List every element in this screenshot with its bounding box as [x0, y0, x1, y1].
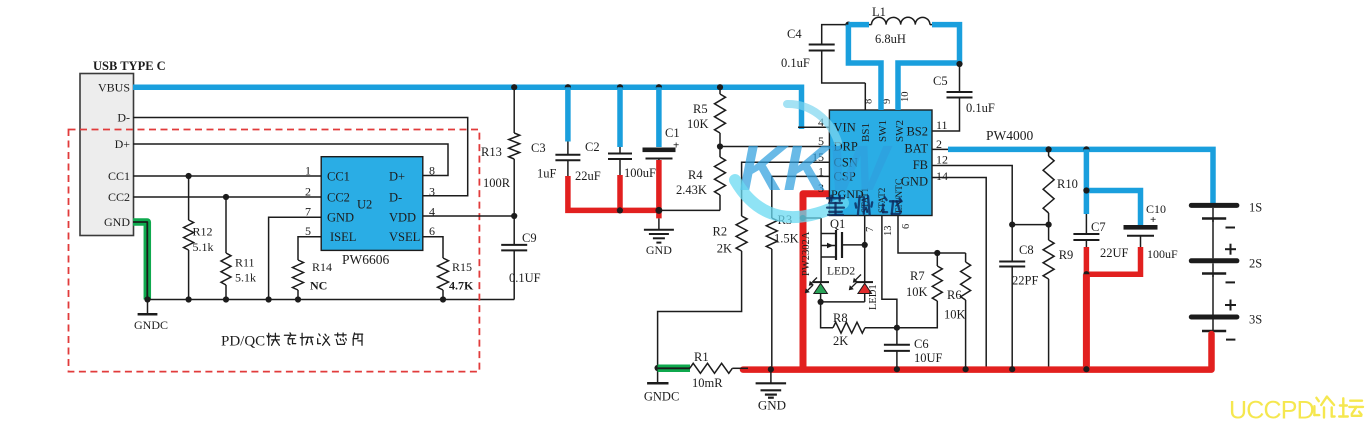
battery sign -3 [1226, 339, 1235, 341]
resistor R10 [1043, 149, 1078, 224]
wire VBUS bus (thick blue) [133, 87, 802, 129]
junction red C1 [655, 207, 662, 214]
svg-text:R7: R7 [910, 269, 925, 283]
svg-text:GNDC: GNDC [134, 318, 168, 332]
svg-text:D+: D+ [115, 137, 131, 151]
svg-text:BAT: BAT [904, 142, 928, 156]
svg-text:C6: C6 [914, 337, 929, 351]
svg-text:R14: R14 [312, 260, 332, 274]
wire pin13 net [882, 216, 897, 328]
svg-text:PW4000: PW4000 [986, 128, 1034, 143]
svg-text:D-: D- [117, 111, 130, 125]
wire GNDC-R1 (green) [658, 365, 690, 373]
wire FB net [932, 166, 1012, 262]
svg-text:GND: GND [104, 215, 130, 229]
resistor R9 [1043, 225, 1073, 370]
junction bus R3/GND [768, 366, 774, 372]
capacitor C9 [501, 216, 540, 300]
junction L1 left [845, 22, 851, 28]
svg-text:6.8uH: 6.8uH [875, 32, 906, 46]
junction CC2/R11 [223, 194, 229, 200]
svg-text:3S: 3S [1249, 313, 1262, 327]
op-chip U2 PW6606 body [321, 157, 423, 251]
svg-text:C8: C8 [1019, 243, 1034, 257]
wire pin6 EN net [898, 216, 966, 254]
diode LED1 (red) [849, 275, 879, 311]
junction BAT C7 [1083, 146, 1089, 152]
junction VBUS R13 [511, 84, 517, 90]
svg-text:1S: 1S [1249, 201, 1262, 215]
resistor R3 [766, 213, 798, 369]
svg-text:D+: D+ [389, 170, 405, 184]
U1 pin numbers right [936, 118, 948, 183]
wire LED cathodes join [821, 301, 865, 303]
junction CC1/R12 [186, 173, 192, 179]
junction bus R6 [963, 366, 969, 372]
junction VDD R13 C9 [511, 213, 517, 219]
svg-text:22uF: 22uF [575, 169, 601, 183]
capacitor C8 [999, 243, 1038, 370]
junction rail R15 [440, 296, 446, 302]
wire ground rail [148, 299, 515, 301]
junction red C2 [617, 207, 623, 213]
capacitor C5 [932, 64, 995, 131]
wire C1-R4 gnd link [659, 209, 720, 211]
svg-text:UCCPD: UCCPD [1229, 397, 1314, 423]
chip U1 PW4000 body [829, 110, 932, 216]
svg-text:10UF: 10UF [914, 351, 943, 365]
junction R5 R4 DRP [717, 143, 723, 149]
junction BAT R10 [1046, 146, 1052, 152]
label USB TYPE C [93, 59, 166, 73]
svg-text:R13: R13 [481, 145, 502, 159]
svg-text:GND: GND [758, 398, 786, 413]
svg-text:2: 2 [305, 185, 311, 199]
svg-text:2K: 2K [717, 242, 732, 256]
svg-text:KKW: KKW [739, 132, 892, 204]
wire D+ net [133, 144, 448, 176]
svg-text:GNDC: GNDC [644, 390, 679, 404]
svg-text:6: 6 [429, 224, 435, 238]
svg-text:10mR: 10mR [692, 376, 723, 390]
svg-text:C1: C1 [665, 126, 680, 140]
resistor R11 [221, 197, 256, 300]
wire FB to divider [1012, 224, 1048, 226]
svg-text:100uF: 100uF [1147, 247, 1178, 261]
svg-text:2K: 2K [833, 334, 848, 348]
wire U2 GND pin7 [269, 217, 322, 299]
junction FB divider [1009, 222, 1015, 228]
svg-text:8: 8 [429, 164, 435, 178]
watermark KKW [739, 132, 892, 204]
capacitor C7 [1073, 214, 1128, 260]
wire red to bus (thick red) [1083, 274, 1090, 370]
wire U2 VDD pin4 [423, 215, 514, 217]
svg-text:PW6606: PW6606 [342, 252, 390, 267]
wire SW1 (thick blue) [848, 25, 881, 110]
svg-text:13: 13 [883, 226, 894, 237]
svg-text:22UF: 22UF [1100, 246, 1129, 260]
svg-text:PW2302A: PW2302A [801, 231, 812, 276]
ground GNDC (bottom) [644, 368, 679, 403]
battery sign +1 [1225, 244, 1236, 255]
U1 top pin texts [860, 120, 906, 142]
svg-text:7: 7 [865, 227, 876, 232]
wire PGND (thick red) [803, 194, 829, 370]
svg-text:1.5K: 1.5K [774, 232, 799, 246]
svg-text:10K: 10K [906, 285, 928, 299]
resistor R4 [676, 147, 726, 211]
svg-text:10K: 10K [687, 117, 709, 131]
svg-text:R10: R10 [1057, 177, 1078, 191]
ground GNDC (left) [134, 300, 168, 333]
svg-text:2S: 2S [1249, 257, 1262, 271]
label PD/QC protocol chip (CJK) [221, 333, 363, 350]
svg-text:R8: R8 [833, 311, 848, 325]
junction R10 R9 [1046, 222, 1052, 228]
U1 bottom pin texts [860, 179, 905, 213]
resistor R8 [821, 302, 897, 348]
pin D+ label [115, 137, 131, 151]
svg-text:C7: C7 [1091, 220, 1106, 234]
junction red link [1083, 271, 1089, 277]
junction rail R11 [223, 296, 229, 302]
svg-text:1uF: 1uF [537, 167, 557, 181]
pin CC1 label [108, 169, 130, 183]
label UCCPD forum (CJK) [1229, 397, 1363, 423]
junction bus C8 [1009, 366, 1015, 372]
svg-text:CC1: CC1 [108, 169, 130, 183]
junction GNDC node [655, 365, 661, 371]
svg-text:6: 6 [901, 224, 912, 229]
svg-text:L1: L1 [872, 5, 886, 19]
pin D- label [117, 111, 130, 125]
transistor Q1 PW2302A [801, 217, 865, 282]
junction rail R12 [186, 296, 192, 302]
svg-text:2.43K: 2.43K [676, 183, 707, 197]
battery sign +2 [1225, 300, 1236, 311]
wire U1 GND pin14 [932, 178, 986, 370]
battery sign -2 [1226, 281, 1236, 283]
junction VBUS C2 [617, 84, 623, 90]
svg-text:R4: R4 [688, 168, 703, 182]
wire CSP net [772, 176, 830, 218]
wire battery bottom [1212, 331, 1214, 344]
svg-text:10: 10 [900, 92, 911, 103]
junction VBUS C3 [565, 84, 571, 90]
junction rail pin7 [266, 296, 272, 302]
wire BAT stub [932, 148, 952, 150]
svg-text:0.1UF: 0.1UF [509, 271, 541, 285]
U2 pin texts left [327, 170, 356, 245]
U2 pin numbers left [305, 164, 311, 239]
svg-text:7: 7 [305, 205, 311, 219]
junction bus C6 [894, 366, 900, 372]
USB Type-C connector shell [80, 74, 134, 236]
wire STAT pin7 net [864, 216, 866, 283]
svg-text:BS2: BS2 [906, 125, 928, 139]
svg-text:NC: NC [310, 279, 327, 293]
inductor L1 [848, 5, 937, 46]
wire CC2 net [133, 196, 321, 198]
svg-text:R6: R6 [947, 288, 962, 302]
svg-text:LED2: LED2 [827, 266, 855, 278]
svg-text:10K: 10K [944, 308, 966, 322]
pin CC2 label [108, 190, 130, 204]
wire GND bus (thick red) [743, 334, 1212, 370]
label PW4000 [986, 128, 1034, 143]
svg-text:12: 12 [936, 153, 948, 167]
svg-text:U2: U2 [357, 198, 372, 212]
junction blue branch [1083, 187, 1089, 193]
svg-text:5.1k: 5.1k [193, 240, 214, 254]
svg-text:D-: D- [389, 191, 402, 205]
wire CC1 net [133, 175, 321, 177]
svg-text:R9: R9 [1059, 248, 1074, 262]
svg-text:3: 3 [429, 185, 435, 199]
svg-text:USB TYPE C: USB TYPE C [93, 59, 166, 73]
resistor R15 [438, 258, 475, 300]
svg-text:C4: C4 [787, 27, 802, 41]
svg-text:R11: R11 [235, 256, 255, 270]
svg-text:GND: GND [327, 211, 354, 225]
U2 pin numbers right [429, 164, 435, 239]
svg-text:R1: R1 [694, 350, 709, 364]
wire BS1 stub [864, 83, 866, 110]
resistor R1 [690, 350, 748, 390]
junction LEDs [818, 299, 824, 305]
svg-text:100uF: 100uF [624, 166, 656, 180]
resistor R2 [658, 216, 748, 368]
capacitor C10 (electrolytic) [1124, 202, 1179, 261]
svg-text:VDD: VDD [389, 211, 416, 225]
svg-text:LED1: LED1 [868, 284, 879, 310]
capacitor C2 [575, 87, 632, 183]
U1 pin texts left [831, 121, 864, 202]
svg-text:CC2: CC2 [108, 190, 130, 204]
svg-text:SW2: SW2 [894, 120, 906, 142]
U1 bottom pin numbers [865, 224, 912, 236]
wire USB GND (green) [133, 222, 147, 300]
battery cell 3S [1189, 275, 1262, 331]
wire D- net [133, 118, 468, 196]
svg-text:100R: 100R [483, 176, 511, 190]
junction VBUS C1 [656, 84, 662, 90]
battery cell 2S [1189, 220, 1262, 277]
svg-text:Q1: Q1 [830, 217, 845, 231]
svg-text:0.1uF: 0.1uF [966, 101, 995, 115]
svg-text:PD/QC: PD/QC [221, 334, 265, 350]
battery sign -1 [1226, 227, 1236, 229]
wire VIN stub [798, 126, 829, 128]
svg-text:R5: R5 [693, 102, 708, 116]
wire CSN net [742, 162, 830, 216]
svg-text:GND: GND [646, 243, 672, 257]
svg-text:R12: R12 [193, 225, 213, 239]
wire input GND rail (thick red) [568, 160, 661, 218]
svg-text:FB: FB [913, 158, 928, 172]
svg-text:R15: R15 [452, 260, 472, 274]
svg-text:VBUS: VBUS [98, 81, 130, 95]
watermark swoosh [735, 104, 843, 217]
svg-text:5.1k: 5.1k [235, 271, 256, 285]
diode LED2 (green) [805, 266, 856, 302]
wire BAT net (thick blue) [948, 149, 1213, 203]
ground GND (bottom) [756, 370, 787, 413]
svg-text:5: 5 [305, 224, 311, 238]
watermark CJK chars [827, 196, 902, 215]
svg-text:+: + [673, 140, 679, 152]
svg-text:C10: C10 [1146, 202, 1166, 216]
wire battery minus link (thick red) [1086, 247, 1140, 274]
junction SW2 C5 [956, 61, 962, 67]
svg-text:4.7K: 4.7K [449, 279, 474, 293]
capacitor C4 [781, 25, 865, 83]
junction bus red-link [1083, 366, 1089, 372]
battery cell 1S [1189, 201, 1262, 223]
svg-text:CC2: CC2 [327, 191, 350, 205]
resistor R14 (NC) [293, 260, 333, 300]
U1 pin numbers left [812, 115, 824, 195]
capacitor C3 [531, 87, 580, 180]
label PW6606 [342, 252, 390, 267]
resistor R13 [481, 87, 520, 216]
U1 pin texts right [901, 125, 928, 189]
capacitor C6 [884, 328, 943, 370]
resistor R12 [184, 176, 214, 300]
svg-text:R2: R2 [713, 225, 728, 239]
svg-text:0.1uF: 0.1uF [781, 56, 810, 70]
resistor R5 [687, 87, 726, 146]
junction rail GNDC [144, 296, 150, 302]
svg-text:1: 1 [305, 164, 311, 178]
resistor R7 [897, 253, 942, 328]
U1 top pin numbers [864, 92, 912, 105]
junction EN R7 [934, 250, 940, 256]
resistor R6 [944, 253, 971, 370]
wire U2 ISEL pin5 [298, 237, 321, 260]
svg-text:CC1: CC1 [327, 170, 350, 184]
U2 pin texts right [389, 170, 420, 245]
svg-text:C9: C9 [522, 231, 537, 245]
capacitor C1 (electrolytic) [624, 87, 680, 212]
junction PGND Q1 [800, 215, 806, 221]
pin VBUS label [98, 81, 130, 95]
svg-text:ISEL: ISEL [330, 230, 356, 244]
svg-text:22PF: 22PF [1012, 274, 1038, 288]
svg-text:C2: C2 [585, 140, 600, 154]
ground GND (under C1) [644, 218, 674, 257]
junction rail R14 [295, 296, 301, 302]
svg-text:11: 11 [936, 118, 948, 132]
pin GND label [104, 215, 130, 229]
svg-text:14: 14 [936, 169, 948, 183]
wire C7/C10 branch (thick blue) [1086, 149, 1140, 226]
wire DRP net [720, 146, 829, 148]
U2 designator [357, 198, 372, 212]
wire SW2 (thick blue) [898, 25, 960, 110]
wire U2 VSEL pin6 [423, 237, 443, 258]
svg-text:VSEL: VSEL [389, 230, 420, 244]
svg-text:C3: C3 [531, 141, 546, 155]
junction VBUS R5 [717, 84, 723, 90]
junction R8 R7 C6 [894, 325, 900, 331]
svg-text:C5: C5 [933, 74, 948, 88]
junction Q1 gate pin7 [862, 242, 868, 248]
PD/QC dashed outline box [69, 130, 480, 372]
